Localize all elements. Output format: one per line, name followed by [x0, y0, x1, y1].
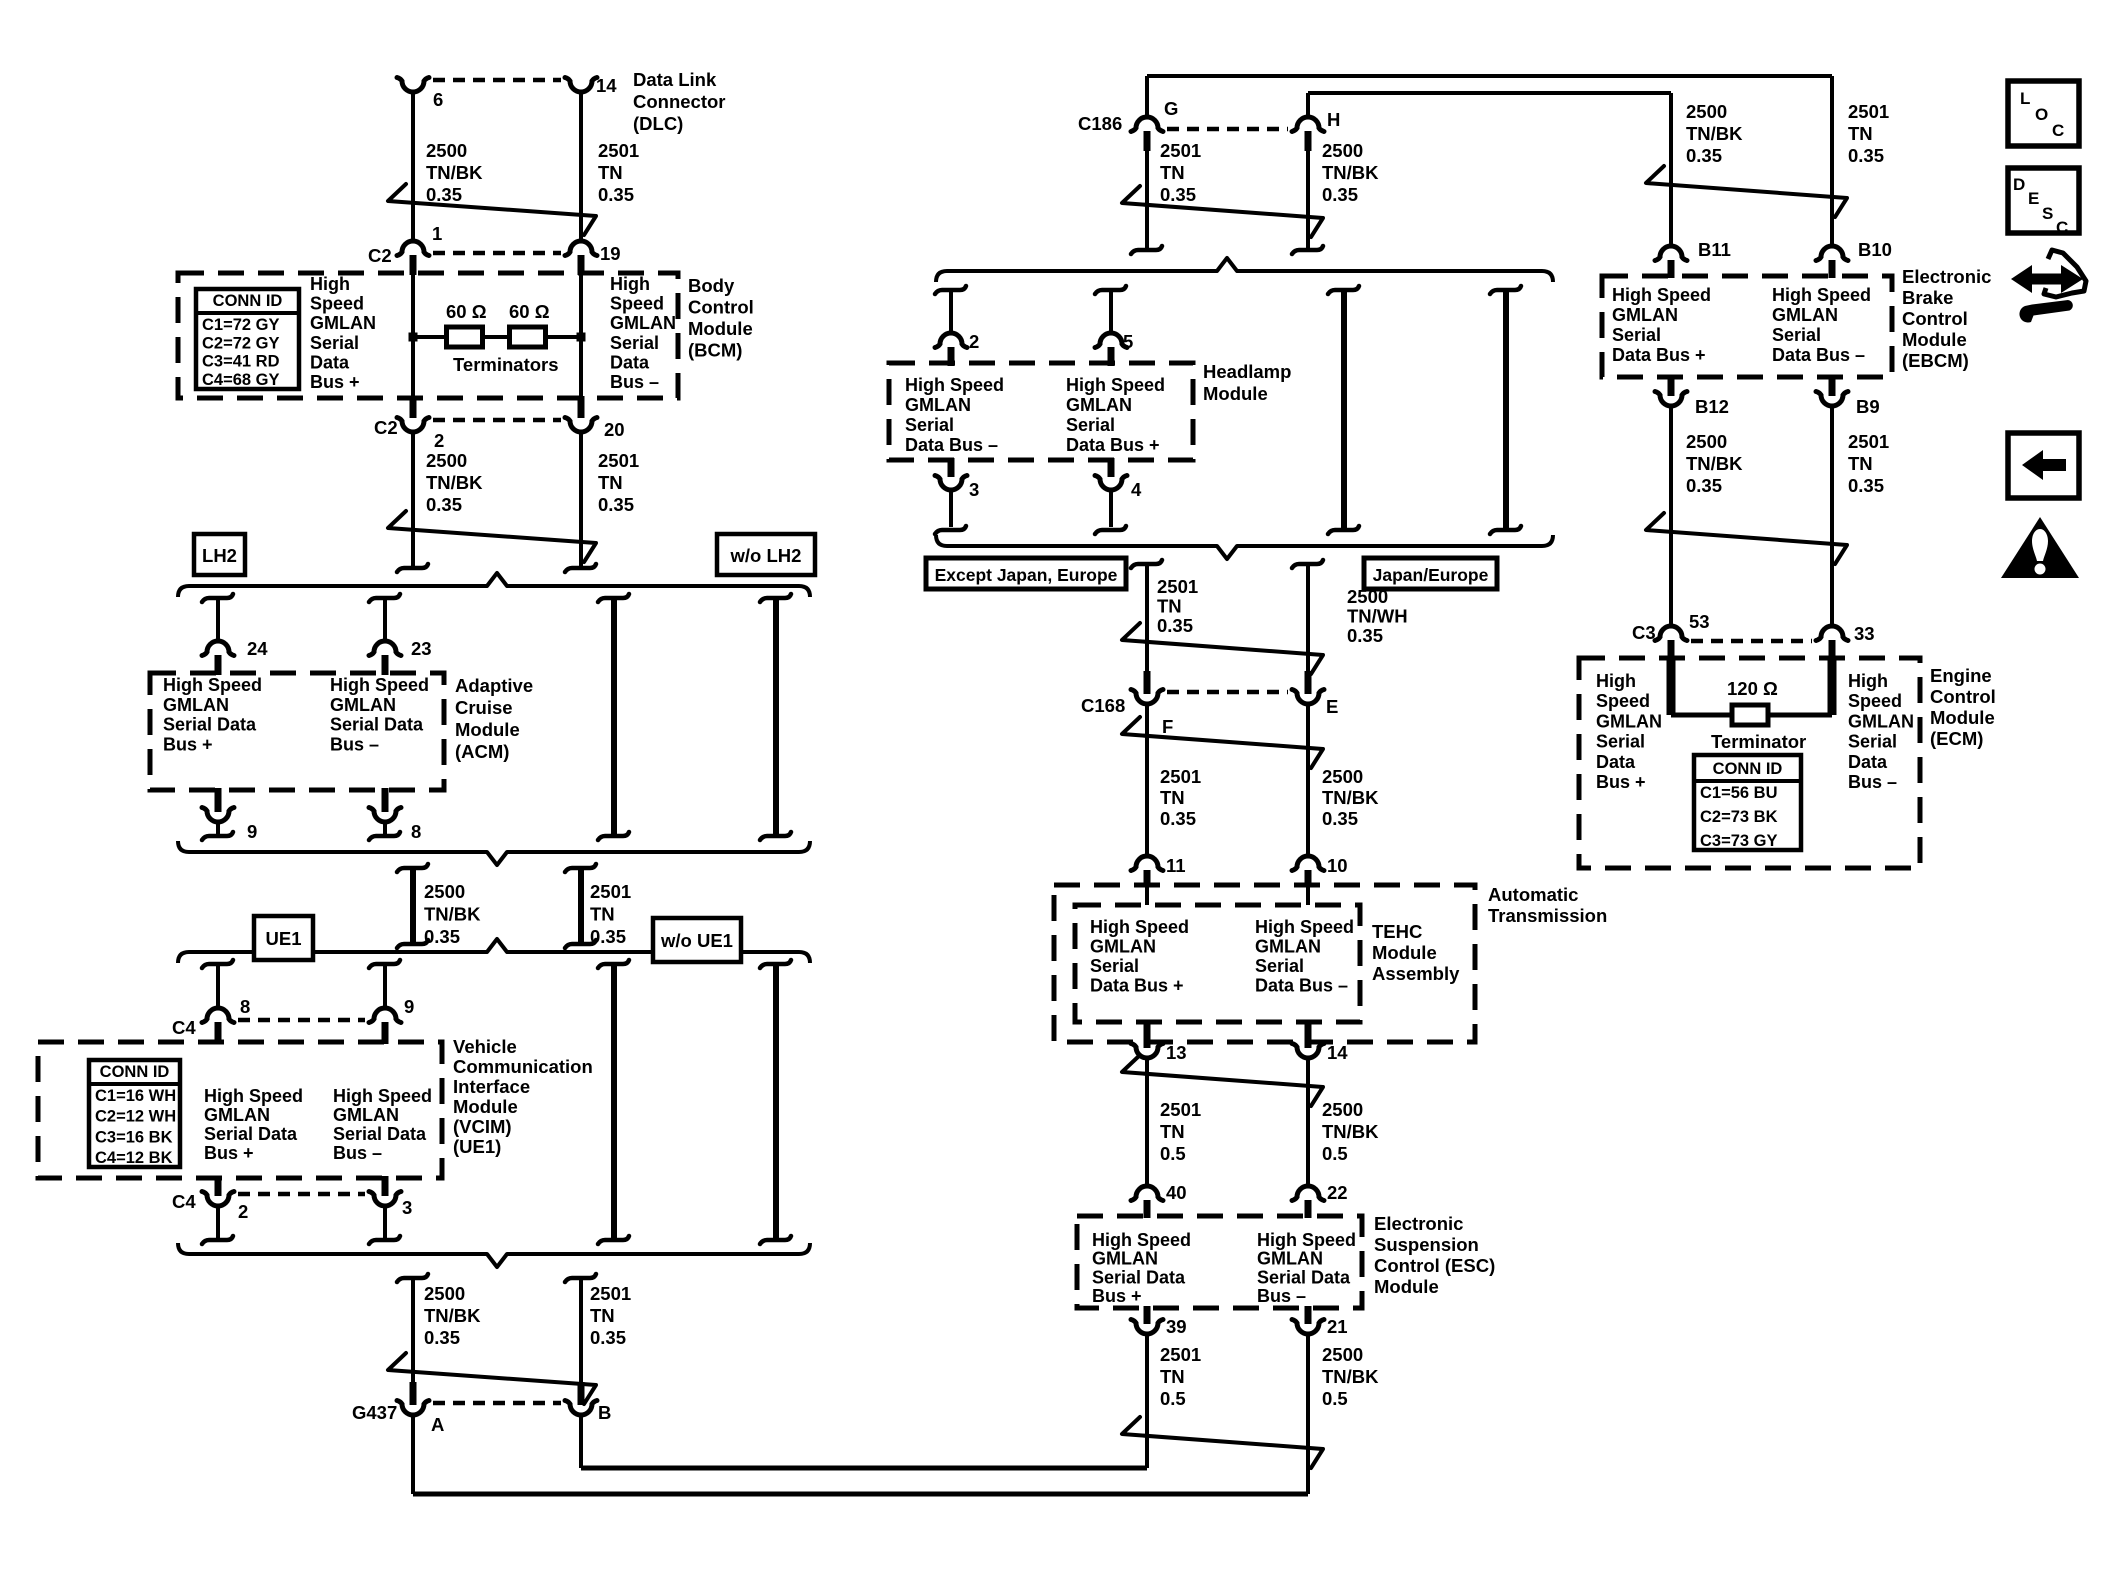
svg-text:High Speed: High Speed [1772, 285, 1871, 305]
svg-text:0.35: 0.35 [1347, 625, 1383, 646]
svg-text:9: 9 [404, 996, 414, 1017]
svg-text:3: 3 [969, 479, 979, 500]
svg-text:2501: 2501 [598, 140, 639, 161]
svg-text:40: 40 [1166, 1182, 1187, 1203]
svg-text:Data: Data [310, 352, 350, 372]
svg-text:GMLAN: GMLAN [1612, 305, 1678, 325]
svg-text:TN/WH: TN/WH [1347, 606, 1408, 627]
svg-text:Speed: Speed [1848, 691, 1902, 711]
svg-text:Adaptive: Adaptive [455, 675, 533, 696]
svg-text:C168: C168 [1081, 695, 1125, 716]
svg-text:11: 11 [1166, 855, 1186, 876]
svg-text:S: S [2042, 204, 2053, 223]
svg-text:2500: 2500 [1322, 766, 1363, 787]
svg-text:Headlamp: Headlamp [1203, 361, 1291, 382]
svg-text:Serial: Serial [1848, 732, 1897, 752]
svg-text:TN/BK: TN/BK [1322, 1366, 1379, 1387]
svg-text:TN/BK: TN/BK [426, 472, 483, 493]
svg-text:Serial: Serial [310, 333, 359, 353]
svg-text:GMLAN: GMLAN [333, 1105, 399, 1125]
svg-text:2500: 2500 [1322, 140, 1363, 161]
svg-text:C1=16 WH: C1=16 WH [95, 1087, 176, 1105]
svg-text:Serial: Serial [1090, 956, 1139, 976]
svg-text:Speed: Speed [1596, 691, 1650, 711]
svg-text:w/o UE1: w/o UE1 [660, 930, 733, 951]
svg-text:GMLAN: GMLAN [330, 695, 396, 715]
svg-text:E: E [2028, 189, 2039, 208]
svg-text:O: O [2035, 105, 2048, 124]
svg-text:Serial: Serial [1066, 415, 1115, 435]
svg-text:Bus –: Bus – [1257, 1286, 1306, 1306]
svg-text:G: G [1164, 98, 1178, 119]
svg-text:C4: C4 [172, 1017, 196, 1038]
svg-text:10: 10 [1327, 855, 1348, 876]
svg-text:CONN ID: CONN ID [213, 292, 283, 310]
svg-text:Serial Data: Serial Data [163, 715, 257, 735]
svg-text:2501: 2501 [590, 1283, 631, 1304]
svg-text:Serial: Serial [1596, 732, 1645, 752]
svg-text:Speed: Speed [310, 294, 364, 314]
svg-text:C2: C2 [374, 417, 398, 438]
svg-text:A: A [431, 1414, 444, 1435]
svg-text:High: High [1596, 671, 1636, 691]
svg-text:2500: 2500 [424, 1283, 465, 1304]
svg-text:C3: C3 [1632, 622, 1656, 643]
svg-text:TN: TN [1160, 1366, 1185, 1387]
svg-text:High Speed: High Speed [333, 1086, 432, 1106]
svg-text:Bus +: Bus + [310, 372, 360, 392]
svg-text:w/o LH2: w/o LH2 [730, 545, 802, 566]
svg-text:Serial Data: Serial Data [333, 1124, 427, 1144]
svg-text:2500: 2500 [1322, 1099, 1363, 1120]
svg-text:Bus +: Bus + [1092, 1286, 1142, 1306]
svg-text:High: High [310, 274, 350, 294]
svg-text:TN/BK: TN/BK [1322, 1121, 1379, 1142]
svg-text:TN/BK: TN/BK [424, 904, 481, 925]
svg-text:2500: 2500 [1347, 586, 1388, 607]
svg-text:GMLAN: GMLAN [1596, 711, 1662, 731]
svg-text:(UE1): (UE1) [453, 1136, 501, 1157]
svg-text:C: C [2052, 121, 2064, 140]
svg-text:0.35: 0.35 [424, 926, 460, 947]
svg-text:Terminators: Terminators [453, 354, 559, 375]
svg-text:Bus –: Bus – [333, 1143, 382, 1163]
svg-text:High Speed: High Speed [1255, 917, 1354, 937]
svg-text:5: 5 [1123, 331, 1133, 352]
svg-text:TN: TN [1157, 596, 1182, 617]
svg-text:TN/BK: TN/BK [1322, 162, 1379, 183]
svg-text:53: 53 [1689, 611, 1710, 632]
svg-text:0.5: 0.5 [1322, 1388, 1348, 1409]
svg-text:B12: B12 [1695, 396, 1729, 417]
svg-text:TN: TN [590, 1305, 615, 1326]
svg-text:2500: 2500 [426, 140, 467, 161]
svg-text:TN: TN [1848, 453, 1873, 474]
svg-text:(BCM): (BCM) [688, 340, 742, 361]
svg-text:C2=72 GY: C2=72 GY [202, 334, 280, 352]
svg-text:C3=16 BK: C3=16 BK [95, 1128, 173, 1146]
svg-text:Bus –: Bus – [330, 734, 379, 754]
svg-text:TN/BK: TN/BK [426, 162, 483, 183]
svg-text:Data Bus –: Data Bus – [905, 435, 998, 455]
svg-text:B9: B9 [1856, 396, 1880, 417]
svg-text:Automatic: Automatic [1488, 884, 1578, 905]
svg-text:0.35: 0.35 [1157, 615, 1193, 636]
svg-text:Module: Module [688, 318, 753, 339]
svg-text:3: 3 [402, 1197, 412, 1218]
svg-text:High Speed: High Speed [1090, 917, 1189, 937]
svg-text:Module: Module [1902, 329, 1967, 350]
svg-text:Interface: Interface [453, 1076, 530, 1097]
svg-text:C186: C186 [1078, 113, 1122, 134]
svg-text:2500: 2500 [426, 450, 467, 471]
svg-text:Japan/Europe: Japan/Europe [1373, 565, 1489, 585]
svg-text:0.5: 0.5 [1160, 1388, 1186, 1409]
svg-text:GMLAN: GMLAN [1092, 1249, 1158, 1269]
svg-text:0.5: 0.5 [1322, 1143, 1348, 1164]
svg-text:39: 39 [1166, 1316, 1187, 1337]
svg-text:0.35: 0.35 [590, 926, 626, 947]
svg-text:2: 2 [969, 331, 979, 352]
svg-text:(ECM): (ECM) [1930, 728, 1983, 749]
svg-text:0.35: 0.35 [598, 184, 634, 205]
svg-text:TN/BK: TN/BK [1686, 123, 1743, 144]
svg-text:Cruise: Cruise [455, 697, 513, 718]
svg-text:0.35: 0.35 [1848, 145, 1884, 166]
svg-text:TN: TN [1160, 162, 1185, 183]
svg-text:Data Bus +: Data Bus + [1090, 976, 1184, 996]
svg-text:LH2: LH2 [202, 545, 237, 566]
svg-text:22: 22 [1327, 1182, 1348, 1203]
svg-text:0.5: 0.5 [1160, 1143, 1186, 1164]
svg-text:GMLAN: GMLAN [1066, 395, 1132, 415]
svg-text:2501: 2501 [1160, 1099, 1201, 1120]
svg-text:Communication: Communication [453, 1056, 593, 1077]
svg-text:Bus –: Bus – [1848, 772, 1897, 792]
svg-text:H: H [1327, 109, 1340, 130]
svg-text:TN/BK: TN/BK [1686, 453, 1743, 474]
svg-text:CONN ID: CONN ID [100, 1063, 170, 1081]
svg-text:2501: 2501 [1157, 576, 1198, 597]
svg-text:Bus +: Bus + [1596, 772, 1646, 792]
svg-text:(VCIM): (VCIM) [453, 1116, 512, 1137]
svg-text:Control: Control [1930, 686, 1996, 707]
svg-text:C4=68 GY: C4=68 GY [202, 371, 280, 389]
svg-text:Electronic: Electronic [1902, 266, 1991, 287]
svg-text:21: 21 [1327, 1316, 1348, 1337]
svg-text:9: 9 [247, 821, 257, 842]
svg-text:(EBCM): (EBCM) [1902, 350, 1969, 371]
svg-text:Engine: Engine [1930, 665, 1992, 686]
svg-text:2500: 2500 [1686, 431, 1727, 452]
svg-text:20: 20 [604, 419, 625, 440]
svg-text:C2: C2 [368, 245, 392, 266]
svg-text:Except Japan, Europe: Except Japan, Europe [935, 565, 1118, 585]
svg-text:Control: Control [688, 297, 754, 318]
svg-text:High: High [610, 274, 650, 294]
svg-text:B10: B10 [1858, 239, 1892, 260]
svg-text:6: 6 [433, 89, 443, 110]
svg-text:Control: Control [1902, 308, 1968, 329]
svg-text:C1=56 BU: C1=56 BU [1700, 784, 1778, 802]
svg-text:Data: Data [1596, 752, 1636, 772]
svg-text:High Speed: High Speed [1092, 1230, 1191, 1250]
svg-text:Data: Data [1848, 752, 1888, 772]
svg-text:Data Bus –: Data Bus – [1772, 345, 1865, 365]
svg-text:Data Bus +: Data Bus + [1612, 345, 1706, 365]
svg-text:C1=72 GY: C1=72 GY [202, 316, 280, 334]
svg-text:60 Ω: 60 Ω [509, 301, 550, 322]
svg-text:0.35: 0.35 [1848, 475, 1884, 496]
svg-text:Module: Module [455, 719, 520, 740]
svg-text:TN: TN [598, 162, 623, 183]
svg-text:13: 13 [1166, 1042, 1187, 1063]
svg-text:Serial Data: Serial Data [204, 1124, 298, 1144]
svg-text:4: 4 [1131, 479, 1142, 500]
svg-text:0.35: 0.35 [424, 1327, 460, 1348]
svg-text:High Speed: High Speed [1612, 285, 1711, 305]
svg-text:TN/BK: TN/BK [1322, 787, 1379, 808]
svg-text:0.35: 0.35 [426, 494, 462, 515]
svg-text:Brake: Brake [1902, 287, 1953, 308]
svg-text:GMLAN: GMLAN [1255, 937, 1321, 957]
svg-text:Connector: Connector [633, 91, 726, 112]
svg-text:TN: TN [1848, 123, 1873, 144]
svg-text:GMLAN: GMLAN [905, 395, 971, 415]
svg-text:G437: G437 [352, 1402, 397, 1423]
svg-text:TN: TN [1160, 787, 1185, 808]
svg-text:TN: TN [598, 472, 623, 493]
svg-text:2501: 2501 [1160, 766, 1201, 787]
svg-text:Data: Data [610, 352, 650, 372]
svg-text:8: 8 [411, 821, 421, 842]
svg-text:0.35: 0.35 [1160, 808, 1196, 829]
svg-text:33: 33 [1854, 623, 1875, 644]
svg-text:14: 14 [1327, 1042, 1348, 1063]
svg-text:Module: Module [1374, 1276, 1439, 1297]
svg-text:2: 2 [238, 1201, 248, 1222]
svg-text:0.35: 0.35 [426, 184, 462, 205]
svg-text:120 Ω: 120 Ω [1727, 678, 1778, 699]
svg-text:High Speed: High Speed [330, 675, 429, 695]
svg-text:GMLAN: GMLAN [1257, 1249, 1323, 1269]
svg-text:CONN ID: CONN ID [1713, 760, 1783, 778]
svg-text:Module: Module [1930, 707, 1995, 728]
svg-text:(ACM): (ACM) [455, 741, 509, 762]
svg-text:2501: 2501 [1160, 140, 1201, 161]
svg-text:D: D [2013, 175, 2025, 194]
svg-text:GMLAN: GMLAN [1772, 305, 1838, 325]
svg-text:2500: 2500 [1686, 101, 1727, 122]
svg-text:Control (ESC): Control (ESC) [1374, 1255, 1495, 1276]
svg-text:Serial: Serial [1255, 956, 1304, 976]
svg-text:High: High [1848, 671, 1888, 691]
svg-text:High Speed: High Speed [1257, 1230, 1356, 1250]
svg-text:GMLAN: GMLAN [204, 1105, 270, 1125]
svg-text:0.35: 0.35 [590, 1327, 626, 1348]
svg-text:Body: Body [688, 275, 735, 296]
svg-text:2501: 2501 [590, 881, 631, 902]
svg-text:TEHC: TEHC [1372, 921, 1422, 942]
svg-text:High Speed: High Speed [905, 375, 1004, 395]
svg-text:UE1: UE1 [266, 928, 302, 949]
svg-text:8: 8 [240, 996, 250, 1017]
svg-text:2: 2 [434, 430, 444, 451]
svg-text:Serial Data: Serial Data [1257, 1267, 1351, 1287]
svg-text:GMLAN: GMLAN [163, 695, 229, 715]
svg-text:TN/BK: TN/BK [424, 1305, 481, 1326]
svg-text:2500: 2500 [424, 881, 465, 902]
svg-text:Serial: Serial [905, 415, 954, 435]
svg-text:B: B [598, 1402, 611, 1423]
svg-text:High Speed: High Speed [204, 1086, 303, 1106]
svg-text:2501: 2501 [1160, 1344, 1201, 1365]
svg-text:Serial Data: Serial Data [330, 715, 424, 735]
svg-text:Bus +: Bus + [163, 734, 213, 754]
svg-text:19: 19 [600, 243, 621, 264]
svg-text:C4=12 BK: C4=12 BK [95, 1149, 173, 1167]
svg-text:Bus –: Bus – [610, 372, 659, 392]
svg-text:E: E [1326, 696, 1338, 717]
svg-text:Serial: Serial [610, 333, 659, 353]
svg-text:Data Bus +: Data Bus + [1066, 435, 1160, 455]
svg-text:Serial: Serial [1612, 325, 1661, 345]
svg-text:F: F [1162, 716, 1173, 737]
svg-text:2500: 2500 [1322, 1344, 1363, 1365]
svg-text:24: 24 [247, 638, 268, 659]
svg-text:2501: 2501 [598, 450, 639, 471]
svg-text:L: L [2020, 89, 2030, 108]
svg-text:TN: TN [1160, 1121, 1185, 1142]
svg-text:0.35: 0.35 [1322, 808, 1358, 829]
svg-text:GMLAN: GMLAN [1848, 711, 1914, 731]
svg-text:Assembly: Assembly [1372, 963, 1460, 984]
svg-text:B11: B11 [1698, 239, 1731, 260]
svg-text:High Speed: High Speed [163, 675, 262, 695]
svg-text:TN: TN [590, 904, 615, 925]
svg-text:0.35: 0.35 [1160, 184, 1196, 205]
svg-text:GMLAN: GMLAN [310, 313, 376, 333]
svg-text:Speed: Speed [610, 294, 664, 314]
svg-text:Vehicle: Vehicle [453, 1036, 517, 1057]
svg-text:Module: Module [453, 1096, 518, 1117]
svg-text:C2=73 BK: C2=73 BK [1700, 808, 1778, 826]
svg-text:GMLAN: GMLAN [1090, 937, 1156, 957]
svg-text:1: 1 [432, 223, 442, 244]
svg-text:Data Bus –: Data Bus – [1255, 976, 1348, 996]
svg-text:Terminator: Terminator [1711, 731, 1806, 752]
svg-text:Data Link: Data Link [633, 69, 717, 90]
svg-text:C3=41 RD: C3=41 RD [202, 353, 280, 371]
svg-text:Electronic: Electronic [1374, 1213, 1463, 1234]
svg-text:Serial Data: Serial Data [1092, 1267, 1186, 1287]
svg-text:GMLAN: GMLAN [610, 313, 676, 333]
svg-text:0.35: 0.35 [1686, 145, 1722, 166]
svg-text:High Speed: High Speed [1066, 375, 1165, 395]
svg-text:0.35: 0.35 [1322, 184, 1358, 205]
svg-text:60 Ω: 60 Ω [446, 301, 487, 322]
svg-text:Suspension: Suspension [1374, 1234, 1479, 1255]
svg-text:Module: Module [1372, 942, 1437, 963]
svg-text:0.35: 0.35 [1686, 475, 1722, 496]
svg-text:Bus +: Bus + [204, 1143, 254, 1163]
svg-text:C3=73 GY: C3=73 GY [1700, 832, 1778, 850]
svg-text:Transmission: Transmission [1488, 905, 1607, 926]
svg-text:Module: Module [1203, 383, 1268, 404]
svg-text:2501: 2501 [1848, 431, 1889, 452]
svg-text:2501: 2501 [1848, 101, 1889, 122]
svg-text:23: 23 [411, 638, 432, 659]
svg-text:(DLC): (DLC) [633, 113, 683, 134]
svg-text:C2=12 WH: C2=12 WH [95, 1108, 176, 1126]
svg-text:C4: C4 [172, 1191, 196, 1212]
svg-text:C: C [2056, 218, 2068, 237]
svg-text:Serial: Serial [1772, 325, 1821, 345]
svg-text:14: 14 [596, 75, 617, 96]
svg-text:0.35: 0.35 [598, 494, 634, 515]
